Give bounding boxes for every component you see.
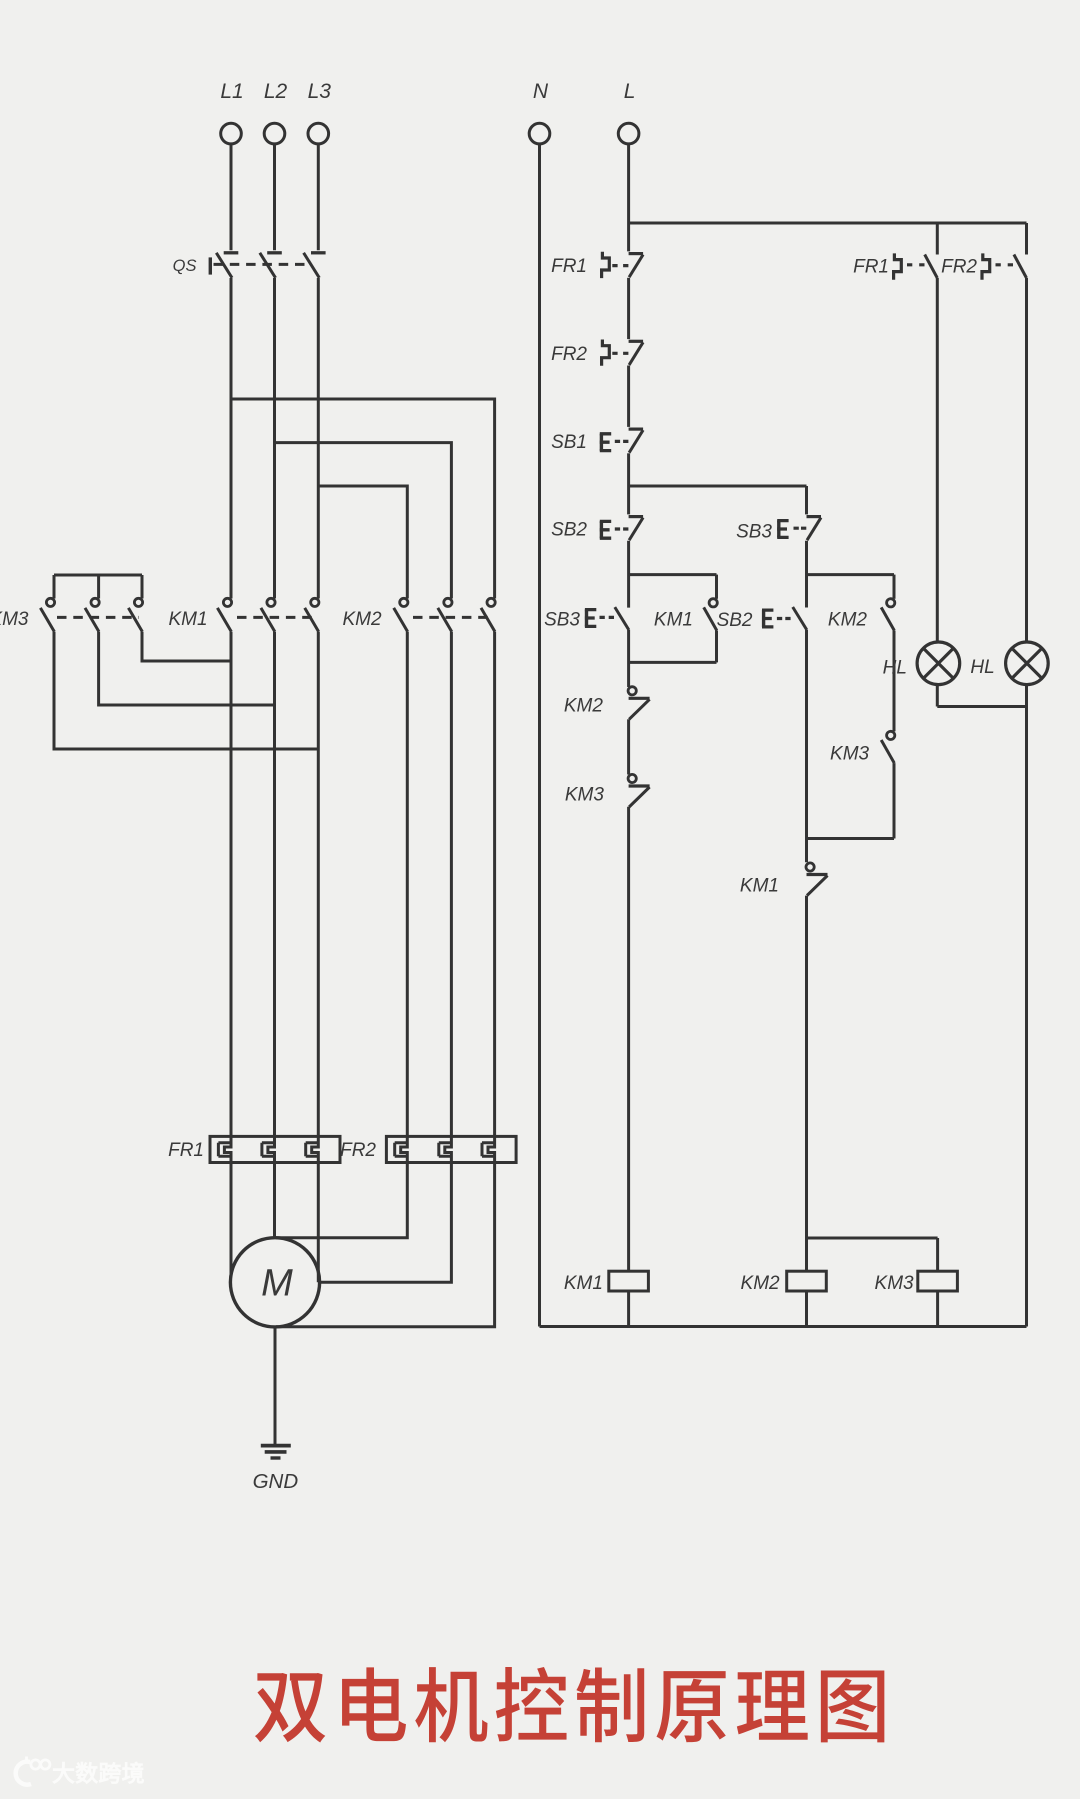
wire L line top	[627, 144, 630, 251]
wire lamp1 to join	[936, 685, 939, 707]
wire FR2 to lamp2	[1025, 278, 1028, 642]
wire FR1 out1 to motor	[230, 1163, 233, 1276]
motor M	[230, 1238, 319, 1327]
wire L2 QS to KM1 pole2	[273, 278, 276, 599]
wire SB3 to SB2 NO	[805, 541, 808, 608]
watermark logo	[16, 1762, 31, 1785]
wire N line	[538, 144, 541, 1326]
svg-text:FR2: FR2	[941, 257, 977, 278]
wire KM1 pole3 to FR1	[317, 632, 320, 1137]
svg-text:KM1: KM1	[564, 1273, 603, 1294]
wire KM2 pole3 to FR2	[493, 632, 496, 1137]
wire L2 branch to KM2 pole2	[275, 443, 452, 599]
svg-text:KM2: KM2	[741, 1273, 781, 1294]
svg-text:KM3: KM3	[565, 785, 605, 806]
terminal L1	[221, 123, 242, 144]
watermark text 大数跨境	[53, 1762, 74, 1783]
terminal L3	[308, 123, 329, 144]
wire KM1 pole1 to FR1	[230, 632, 233, 1137]
wire FR1 to lamp1	[936, 278, 939, 642]
svg-text:L2: L2	[264, 80, 288, 103]
svg-text:FR2: FR2	[340, 1140, 376, 1161]
wire KM2 pole1 to FR2	[406, 632, 409, 1137]
svg-text:KM2: KM2	[828, 610, 868, 631]
svg-text:GND: GND	[253, 1470, 299, 1493]
terminal L2	[264, 123, 285, 144]
ground	[261, 1444, 291, 1448]
wire lamp2 to bus	[1025, 685, 1028, 1327]
wire KM3 interlock to KM1 coil	[627, 807, 630, 1271]
svg-text:FR1: FR1	[853, 257, 889, 278]
wire L1 QS to KM1 pole1	[230, 278, 233, 599]
svg-text:QS: QS	[173, 257, 197, 275]
wire L1 branch to KM2 pole3	[231, 399, 495, 599]
wire KM3 pole1 merge	[54, 632, 318, 749]
svg-text:L: L	[624, 80, 636, 103]
wire SB3 to KM2 interlock	[627, 630, 630, 687]
svg-text:KM1: KM1	[168, 609, 207, 630]
svg-text:N: N	[533, 80, 549, 103]
svg-text:KM2: KM2	[564, 696, 604, 717]
svg-text:HL: HL	[970, 657, 994, 678]
wire FR2 out1 to motor	[276, 1163, 407, 1238]
svg-text:SB3: SB3	[544, 610, 580, 631]
wire KM3 pole3 merge	[142, 632, 231, 661]
svg-text:KM3: KM3	[0, 609, 29, 630]
node L branch to lamps	[629, 222, 1027, 225]
wire L1 to QS	[230, 144, 233, 250]
svg-text:KM3: KM3	[875, 1273, 915, 1294]
wire FR1 out3 to motor	[317, 1163, 320, 1283]
node branch2 takeoff	[629, 485, 807, 488]
wire KM2 aux to KM3	[893, 631, 896, 732]
svg-text:SB2: SB2	[717, 610, 753, 631]
terminal L	[618, 123, 639, 144]
wire bottom bus	[540, 1325, 1027, 1328]
terminal N	[529, 123, 550, 144]
wire FR1 to FR2	[627, 278, 630, 339]
wire L3 branch to KM2 pole1	[318, 486, 407, 599]
svg-text:L1: L1	[220, 80, 243, 103]
wire SB2 to SB3	[627, 541, 630, 608]
wire KM2 coil to bus	[805, 1291, 808, 1327]
svg-text:M: M	[261, 1263, 293, 1305]
svg-text:FR2: FR2	[551, 344, 587, 365]
svg-text:FR1: FR1	[551, 256, 587, 277]
svg-text:KM1: KM1	[740, 876, 779, 897]
wire KM3 coil to bus	[936, 1291, 939, 1327]
contact KM1 aux NO	[629, 573, 717, 576]
wire FR2 out2 to motor	[320, 1163, 452, 1283]
svg-text:KM3: KM3	[830, 744, 870, 765]
svg-text:KM2: KM2	[342, 609, 382, 630]
wire FR2 out3 to motor	[276, 1163, 495, 1327]
wire lamp1 drop	[936, 223, 939, 255]
svg-text:KM1: KM1	[654, 610, 693, 631]
wire FR2 to SB1	[627, 366, 630, 427]
svg-text:SB2: SB2	[551, 520, 587, 541]
wire L2 to QS	[273, 144, 276, 250]
svg-text:SB3: SB3	[736, 522, 772, 543]
wire SB1 to SB2	[627, 453, 630, 514]
wire L3 to QS	[317, 144, 320, 250]
title 双电机控制原理图	[255, 1673, 325, 1742]
svg-text:SB1: SB1	[551, 432, 587, 453]
wire KM3 coil feed	[807, 1237, 938, 1240]
wire motor to ground	[274, 1327, 277, 1445]
wire lamp2 drop	[1025, 223, 1028, 255]
svg-text:HL: HL	[883, 658, 907, 679]
wire FR1 out2 to motor	[273, 1163, 276, 1238]
svg-text:L3: L3	[308, 80, 332, 103]
wire KM2 to KM3 interlock	[627, 719, 630, 774]
wire KM2 pole2 to FR2	[450, 632, 453, 1137]
wire KM1 coil to bus	[627, 1291, 630, 1327]
wire KM3 to rejoin	[893, 763, 896, 838]
contact KM2 aux NO	[807, 573, 895, 576]
wire L3 QS to KM1 pole3	[317, 278, 320, 599]
svg-text:FR1: FR1	[168, 1140, 204, 1161]
wire KM3 pole2 merge	[99, 632, 275, 705]
wire SB2 NO to KM1 NC	[805, 630, 808, 862]
wire KM1 pole2 to FR1	[273, 632, 276, 1137]
wire branch2 top	[805, 486, 808, 514]
wire KM1 NC to KM2 coil	[805, 896, 808, 1272]
